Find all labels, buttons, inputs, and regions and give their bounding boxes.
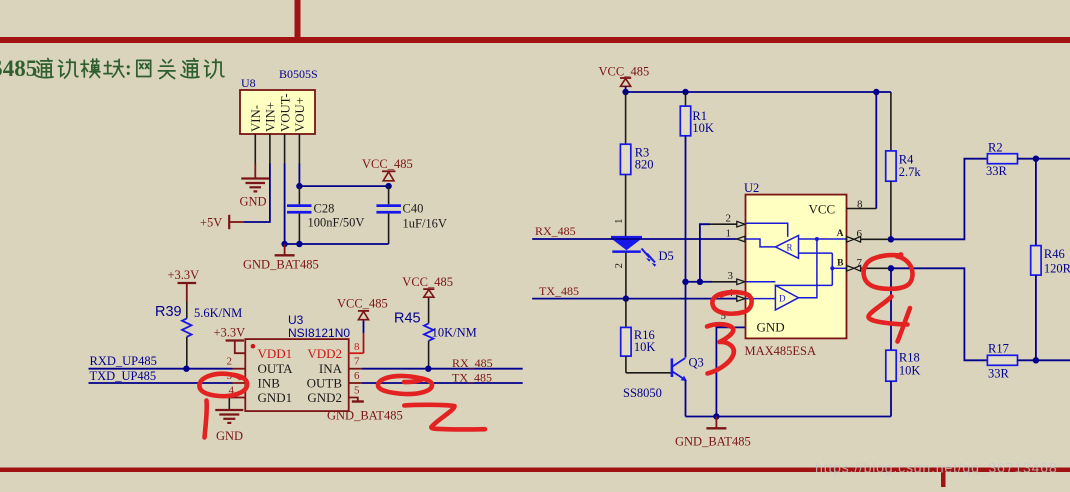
svg-text:RX_485: RX_485 <box>452 356 493 370</box>
U8 pin 4 VOUT+ <box>298 134 300 164</box>
power +5V <box>200 215 244 230</box>
node junction R17/R46 <box>1033 357 1039 363</box>
node junction bottom rail C28 <box>296 241 302 247</box>
node junction ground rail <box>713 413 719 419</box>
power GND_BAT485 below rail <box>243 244 319 272</box>
U2 pin 2 arrow <box>737 221 745 227</box>
node junction A net <box>888 236 894 242</box>
svg-text:+3.3V: +3.3V <box>168 268 200 282</box>
svg-text:10K/NM: 10K/NM <box>432 326 477 340</box>
wire VOUT+ down <box>298 164 300 187</box>
resistor R17 33R <box>987 342 1017 381</box>
power VCC_485 above R45 <box>402 275 453 297</box>
U3BLOCK <box>214 275 523 443</box>
node junction top rail right <box>385 183 391 189</box>
title CJK 网 <box>137 60 151 76</box>
svg-text::: : <box>125 58 132 80</box>
bottom border horizontal line <box>0 468 1070 473</box>
svg-text:TX_485: TX_485 <box>452 370 492 384</box>
LEFTBLOCK <box>89 67 447 383</box>
svg-text:GND_BAT485: GND_BAT485 <box>675 435 751 449</box>
wire up to U2 pin2 <box>700 224 710 282</box>
svg-text:5.6K/NM: 5.6K/NM <box>194 306 242 320</box>
node junction B net <box>888 265 894 271</box>
wire bottom rail <box>285 243 389 245</box>
capacitor C28 <box>287 186 364 244</box>
U2 internal receiver wiring <box>746 223 847 298</box>
svg-text:8: 8 <box>857 199 863 211</box>
U2 pin 7 B bowtie arrow <box>837 257 891 271</box>
svg-text:TX_485: TX_485 <box>539 284 579 298</box>
svg-text:OUTA: OUTA <box>258 361 294 376</box>
wire RX_485 to U2 pin1 <box>532 238 737 240</box>
wire top rail to VCC_485 <box>299 185 388 187</box>
svg-text:VCC: VCC <box>809 202 836 217</box>
wire pin4 to ground <box>228 398 230 410</box>
power VCC_485 at U3 pin8 <box>337 297 388 320</box>
node junction R1 top <box>682 89 688 95</box>
resistor R3 820 <box>620 92 653 236</box>
RIGHTBLOCK <box>532 65 891 449</box>
DC-DC module U8 B0505S <box>240 90 315 134</box>
svg-text:10K: 10K <box>634 340 656 354</box>
title CJK 通 <box>181 58 199 77</box>
svg-text:D5: D5 <box>659 249 674 263</box>
svg-text:33R: 33R <box>988 367 1010 381</box>
node junction pin8 drop <box>873 89 879 95</box>
node internal junction A <box>815 237 819 241</box>
wire pin8 up <box>875 92 877 209</box>
wire VIN- to ground <box>254 164 256 178</box>
resistor R2 33R <box>986 141 1018 179</box>
title CJK 关 <box>158 60 175 79</box>
svg-text:https://blog.csdn.net/qq_36713: https://blog.csdn.net/qq_36713468 <box>815 461 1057 477</box>
U3 pin 6 stub <box>349 382 362 384</box>
svg-text:RXD_UP485: RXD_UP485 <box>90 354 157 368</box>
wire U2 pin5 to ground rail <box>716 327 745 416</box>
svg-text:B: B <box>837 258 844 268</box>
svg-text:2.7k: 2.7k <box>899 165 922 179</box>
annotation digit 2 squiggle <box>404 405 485 430</box>
power GND_BAT485 at U3 pin5 <box>327 402 403 423</box>
wire R17 to right edge <box>1018 359 1070 361</box>
node junction R39 on RXD wire <box>183 366 189 372</box>
wire R1 down to RE/DE junction and Q3 collector <box>685 136 687 358</box>
node junction LED on TX wire <box>623 295 629 301</box>
svg-text:R46: R46 <box>1044 247 1065 261</box>
capacitor C40 <box>376 186 447 244</box>
node junction R2/R46 <box>1033 156 1039 162</box>
annotation ellipse around U3 pins 3-4 <box>199 374 247 396</box>
svg-text:+5V: +5V <box>200 216 222 230</box>
U2 pin 8 stub <box>847 208 877 210</box>
annotation digit 3 <box>707 324 734 373</box>
resistor R46 120R <box>1031 159 1070 361</box>
U2 pin 3 arrow <box>737 279 745 285</box>
wire TX_485 to U2 pin4 <box>532 298 737 300</box>
svg-text:VIN+: VIN+ <box>264 102 278 132</box>
wire TXD_UP485 <box>89 382 233 384</box>
power VCC_485 above C40 <box>362 157 413 181</box>
node internal junction B <box>830 266 834 270</box>
power +3.3V at U3 pin1 <box>214 326 246 354</box>
wire RE/DE junction link <box>686 281 700 283</box>
transceiver U2 MAX485ESA body <box>746 195 847 339</box>
annotation circle around U2 pin4 <box>712 292 751 314</box>
svg-text:2: 2 <box>613 263 625 269</box>
svg-text:U2: U2 <box>744 181 759 195</box>
node junction bottom rail left <box>281 241 287 247</box>
FARRIGHT <box>886 92 1070 417</box>
U2BLOCK <box>721 92 892 358</box>
svg-text:R2: R2 <box>988 141 1003 155</box>
svg-text:GND: GND <box>216 429 243 443</box>
resistor R1 10K <box>680 92 714 136</box>
svg-text:VCC_485: VCC_485 <box>599 65 650 79</box>
svg-text:D: D <box>779 294 786 304</box>
op-amp style driver triangle D <box>775 285 798 310</box>
isolator U3 NSI8121N0 body <box>245 339 348 411</box>
svg-text:R: R <box>787 243 793 253</box>
wire TX_485 from pin6 <box>362 382 523 384</box>
title CJK 讯 <box>204 59 223 78</box>
transistor Q3 SS8050 <box>623 356 704 400</box>
node junction DE right <box>697 279 703 285</box>
U8 pin 1 VIN- <box>254 134 256 164</box>
svg-text:MAX485ESA: MAX485ESA <box>745 344 817 358</box>
svg-text:VCC_485: VCC_485 <box>337 297 388 311</box>
svg-text:VIN-: VIN- <box>249 105 263 132</box>
svg-text:B0505S: B0505S <box>279 67 318 81</box>
resistor R45 10K/NM <box>394 297 477 369</box>
node junction R45 on RX wire <box>425 366 431 372</box>
svg-text:GND: GND <box>757 320 785 335</box>
resistor R16 10K <box>621 299 656 373</box>
svg-text:10K: 10K <box>692 121 714 135</box>
svg-text:TXD_UP485: TXD_UP485 <box>90 369 157 383</box>
power +3.3V above R39 <box>168 268 200 302</box>
svg-text:5: 5 <box>354 385 360 397</box>
wire A net to R2 <box>891 159 988 240</box>
svg-text:R18: R18 <box>899 351 920 365</box>
svg-text:6: 6 <box>857 228 863 240</box>
pin1 marker dot <box>251 344 256 349</box>
title CJK 讯 <box>58 59 77 78</box>
title CJK 模 <box>81 59 100 78</box>
wire VOUT- down <box>284 164 286 245</box>
U3 pin 3 <box>233 382 246 384</box>
resistor R39 5.6K/NM <box>155 302 242 369</box>
svg-text:RX_485: RX_485 <box>535 224 576 238</box>
svg-text:10K: 10K <box>899 364 921 378</box>
wire pin8 to VCC_485 <box>363 320 365 333</box>
svg-text:6: 6 <box>354 370 360 382</box>
svg-text:R17: R17 <box>988 342 1009 356</box>
svg-text:U8: U8 <box>241 76 256 90</box>
wire bottom ground rail <box>686 416 891 418</box>
svg-text:120R: 120R <box>1044 262 1070 276</box>
svg-text:2: 2 <box>227 356 233 368</box>
svg-text:S485: S485 <box>0 56 37 81</box>
title CJK 块 <box>104 59 124 77</box>
ground GND symbol <box>241 179 269 192</box>
U3 pin 4 <box>229 397 245 399</box>
power GND_BAT485 bottom <box>675 417 751 449</box>
wire RX_485 from pin7 <box>362 368 523 370</box>
svg-text:100nF/50V: 100nF/50V <box>308 216 365 230</box>
svg-text:C40: C40 <box>403 202 424 216</box>
U8 pin 3 VOUT- <box>284 134 286 164</box>
svg-text:7: 7 <box>857 257 863 269</box>
LED D5 <box>611 236 674 299</box>
wire top rail <box>626 91 891 93</box>
U2 pin 4 arrow <box>737 296 745 302</box>
top border vertical line <box>295 0 301 37</box>
wire R2 to right edge <box>1018 158 1070 160</box>
svg-text:SS8050: SS8050 <box>623 386 662 400</box>
op-amp style receiver triangle R <box>775 236 798 259</box>
svg-text:33R: 33R <box>986 164 1008 178</box>
bottom border vertical stub <box>941 472 946 487</box>
wire R16 to Q3 base <box>626 372 672 374</box>
top border horizontal line <box>0 37 1070 43</box>
annotation digit 1 <box>205 401 207 438</box>
wire B net to R17 <box>891 268 987 360</box>
svg-text:VDD2: VDD2 <box>307 346 342 361</box>
node junction DE left <box>682 279 688 285</box>
svg-text:VOUT-: VOUT- <box>278 93 292 132</box>
U3 pin 8 stub <box>349 352 364 354</box>
U2 pin 1 arrow <box>737 236 745 242</box>
title CJK 通 <box>35 58 53 77</box>
wire +5V to VIN+ <box>244 164 270 223</box>
U3 pin 7 stub <box>349 368 362 370</box>
annotation digit 4 <box>868 297 910 342</box>
svg-text:INA: INA <box>319 361 343 376</box>
svg-text:GND_BAT485: GND_BAT485 <box>327 409 403 423</box>
svg-text:VOU+: VOU+ <box>293 97 307 132</box>
svg-text:INB: INB <box>258 376 281 391</box>
svg-text:1uF/16V: 1uF/16V <box>403 217 447 231</box>
svg-text:1: 1 <box>613 219 625 225</box>
ANNOT <box>199 254 912 437</box>
svg-text:NSI8121N0: NSI8121N0 <box>288 326 350 340</box>
node junction top rail left <box>296 183 302 189</box>
svg-text:A: A <box>837 229 844 239</box>
svg-text:VCC_485: VCC_485 <box>362 157 413 171</box>
svg-text:820: 820 <box>635 158 654 172</box>
svg-text:R45: R45 <box>394 311 421 327</box>
svg-text:1: 1 <box>726 227 732 239</box>
U3 pin 5 stub <box>349 398 358 401</box>
annotation ellipse around U3 pin6 wire <box>378 376 432 394</box>
svg-text:GND1: GND1 <box>258 390 293 405</box>
node junction VCC top <box>622 89 628 95</box>
svg-text:Q3: Q3 <box>689 356 704 370</box>
svg-text:C28: C28 <box>314 202 335 216</box>
svg-text:2: 2 <box>726 213 732 225</box>
WATERMARK <box>815 461 1057 477</box>
U2 pin 6 A bowtie arrow <box>837 228 891 242</box>
U8 pin 2 VIN+ <box>269 134 271 164</box>
svg-text:GND: GND <box>240 195 267 209</box>
svg-text:GND_BAT485: GND_BAT485 <box>243 258 319 272</box>
svg-text:7: 7 <box>354 356 360 368</box>
wire Q3 emitter down <box>685 380 687 417</box>
svg-text:VCC_485: VCC_485 <box>402 275 453 289</box>
annotation ellipse around U2 pin7 <box>864 254 913 288</box>
svg-text:GND2: GND2 <box>307 390 342 405</box>
resistor R4 2.7k <box>886 92 922 239</box>
resistor R18 10K <box>886 268 921 416</box>
svg-text:OUTB: OUTB <box>307 376 343 391</box>
svg-text:VDD1: VDD1 <box>258 346 293 361</box>
svg-text:R39: R39 <box>155 304 182 320</box>
U3 pin 2 <box>233 368 246 370</box>
wire RXD_UP485 <box>89 368 233 370</box>
svg-text:8: 8 <box>354 341 360 353</box>
svg-text:3: 3 <box>728 270 734 282</box>
wire to U2 pin3 <box>700 281 712 283</box>
power VCC_485 top <box>599 65 650 93</box>
ground GND symbol at U3 <box>215 410 243 423</box>
svg-text:+3.3V: +3.3V <box>214 326 246 340</box>
